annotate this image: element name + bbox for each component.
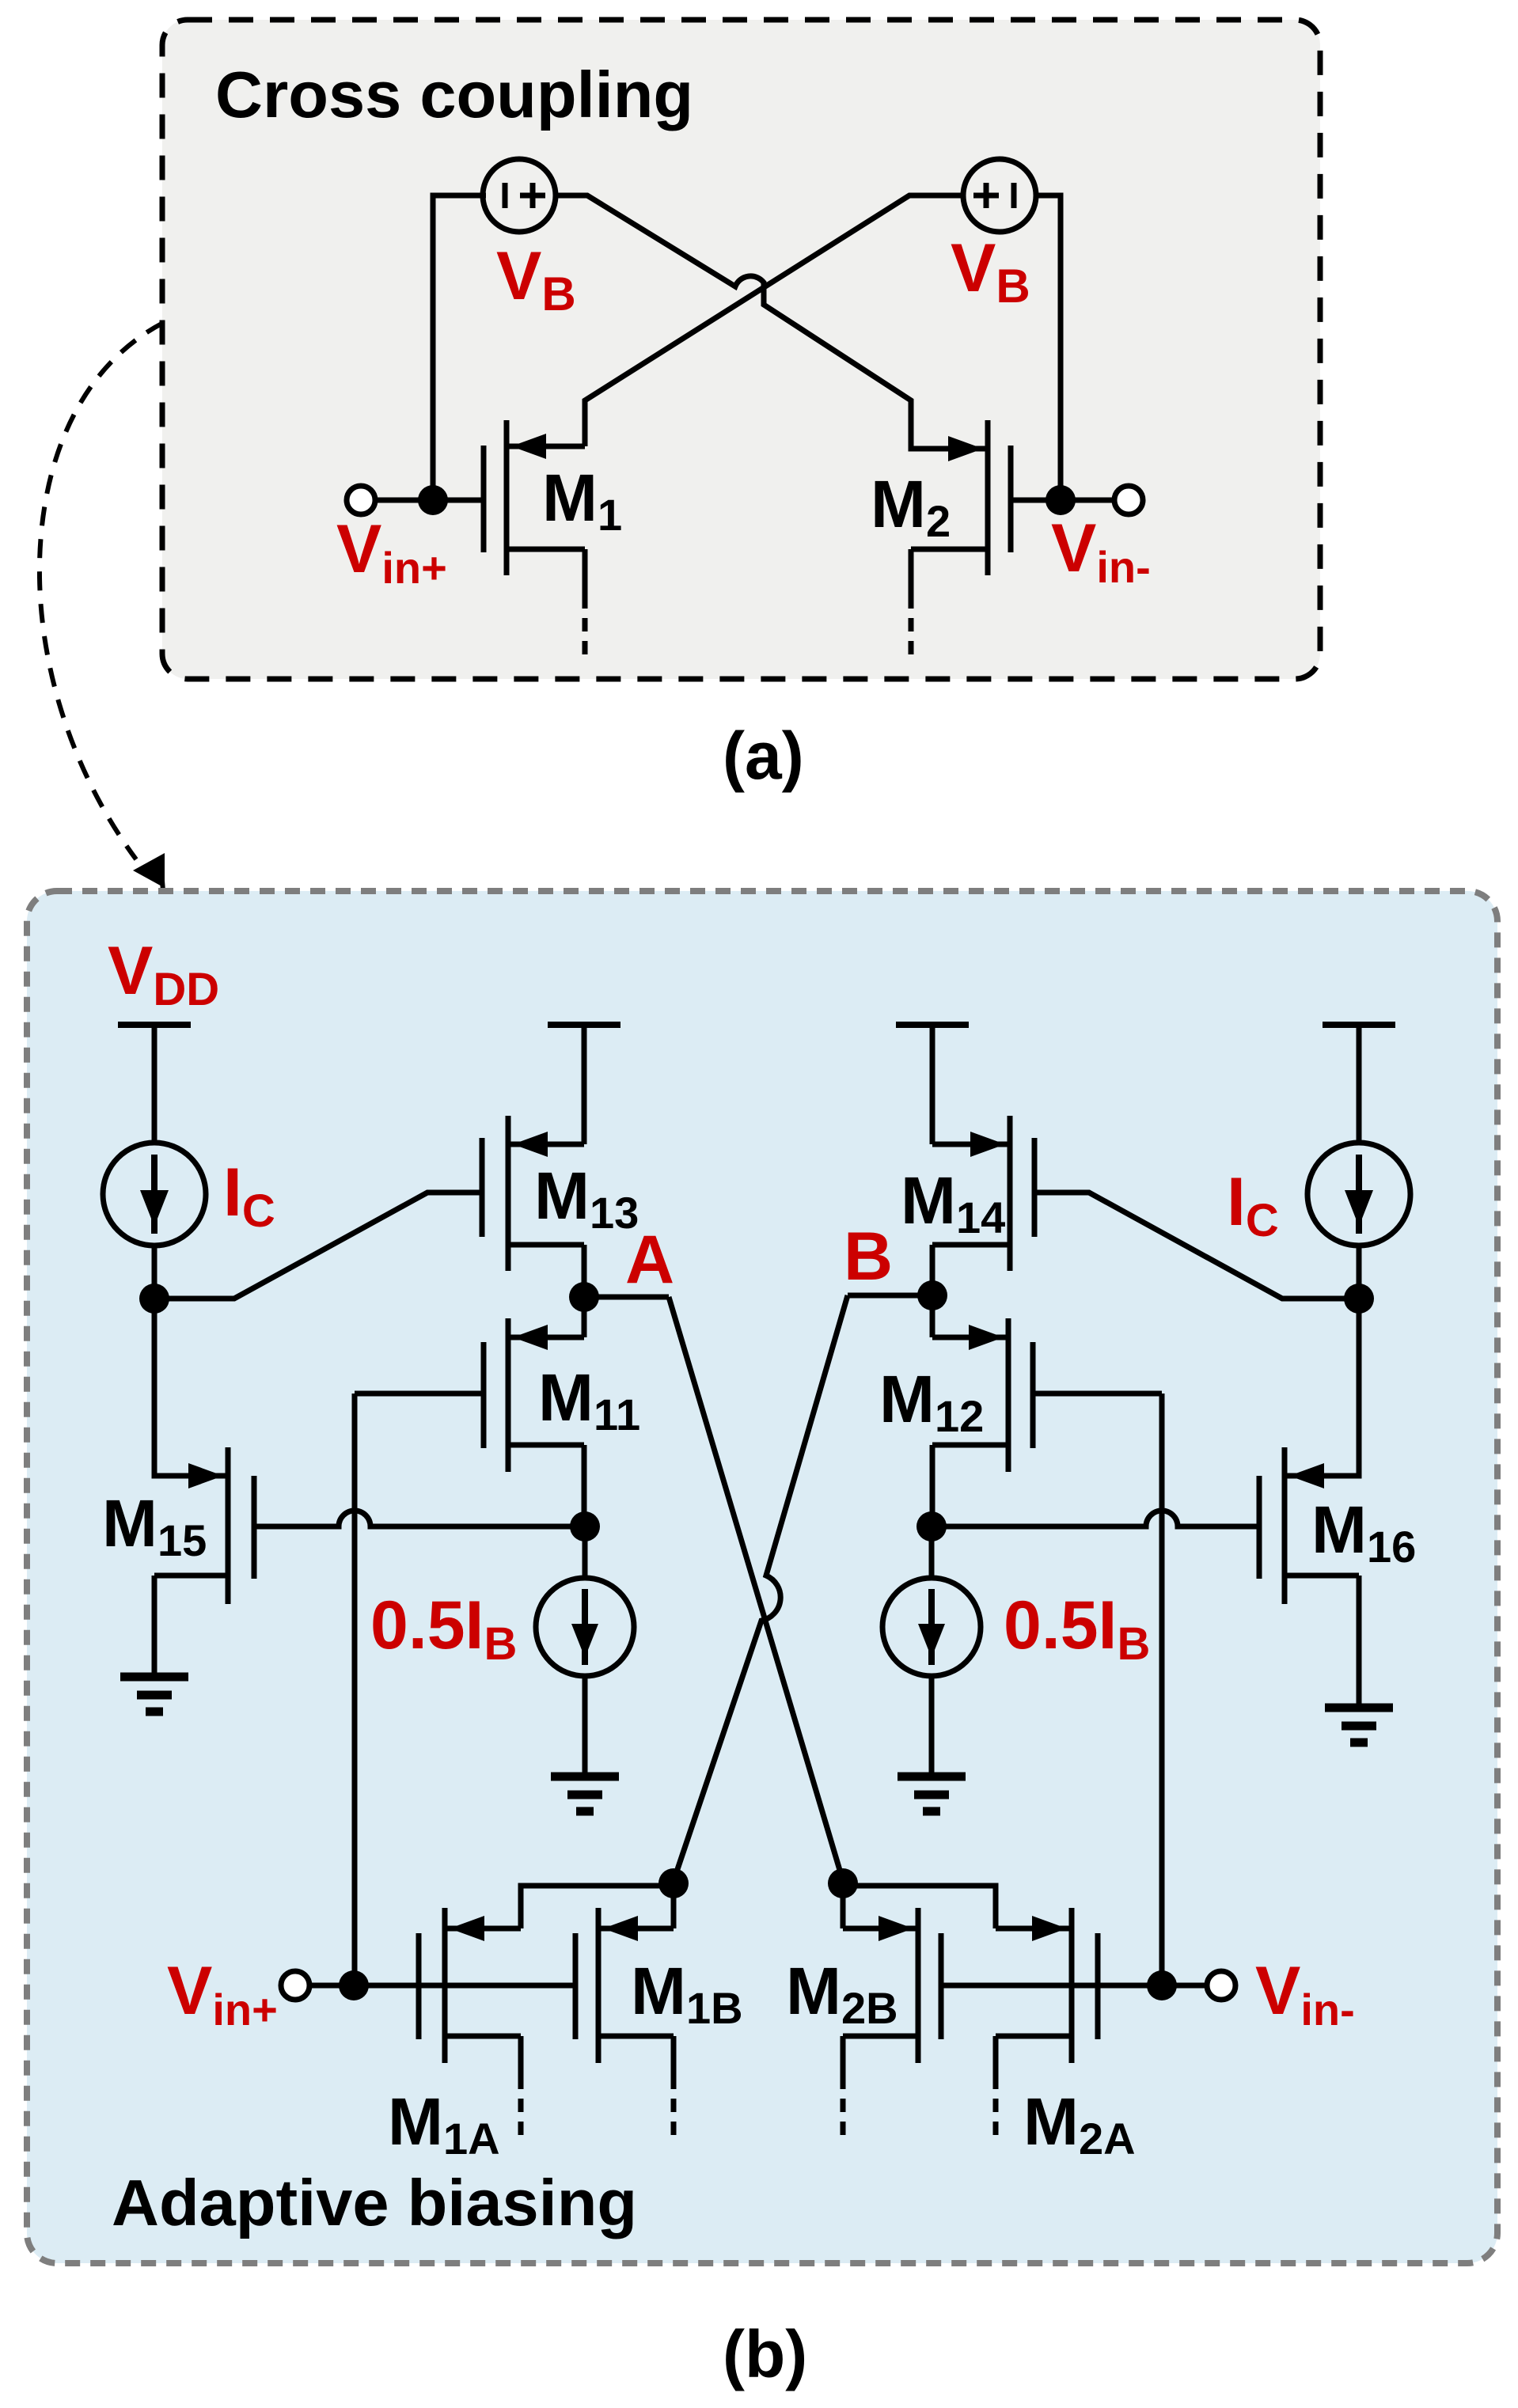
wire M2 gate to Vin-	[1011, 498, 1116, 503]
input terminal Vin- (b)	[1207, 1971, 1235, 2000]
svg-text:(a): (a)	[723, 719, 804, 793]
wire Vin- to M2A/M2B gates	[941, 1983, 1207, 1989]
node M1 pair common source	[658, 1868, 689, 1898]
node A	[569, 1282, 599, 1312]
label VB right	[951, 230, 1030, 313]
wire M1B drain tail	[671, 2036, 677, 2141]
label M14	[901, 1163, 1005, 1242]
title Cross coupling	[215, 58, 693, 131]
title Adaptive biasing	[112, 2166, 637, 2239]
wire Vin- riser to M12 gate	[1159, 1394, 1165, 1985]
label M2B	[786, 1954, 898, 2033]
node Vin+ junction (b)	[339, 1970, 369, 2000]
power VDD rail right	[1323, 1025, 1395, 1144]
label M1A	[388, 2084, 500, 2163]
wire M12 gate to Vin- riser	[1033, 1391, 1162, 1397]
label VDD	[108, 933, 219, 1015]
current source 0.5IB left	[536, 1526, 634, 1777]
wire M1A source up-over to common node	[521, 1886, 674, 1928]
transistor M15	[154, 1447, 254, 1677]
current source 0.5IB right	[882, 1526, 981, 1777]
wire M14 gate to IC node	[1034, 1193, 1359, 1299]
label Vin+ (a)	[336, 511, 447, 593]
label Vin- (a)	[1051, 510, 1151, 592]
label M1B	[631, 1954, 743, 2033]
label Vin- (b)	[1255, 1953, 1355, 2034]
transistor M14	[932, 1116, 1034, 1295]
ground 0.5IB left	[551, 1777, 619, 1811]
label M2A	[1023, 2084, 1136, 2163]
power VDD rail M14	[896, 1025, 969, 1144]
svg-text:Adaptive biasing: Adaptive biasing	[112, 2166, 637, 2239]
label 0.5IB left	[370, 1587, 517, 1670]
current source IC right	[1307, 1143, 1410, 1246]
ground M16	[1325, 1708, 1393, 1742]
wire cross B to M1 pair source (with hop)	[673, 1295, 848, 1883]
label M2	[871, 467, 951, 546]
wire M11 drain down	[582, 1445, 587, 1526]
wire M15 gate line (hop over riser)	[256, 1511, 585, 1526]
wire Vin+ to M1 gate	[375, 498, 484, 503]
wire M11 gate to Vin+ riser	[355, 1391, 484, 1397]
ground M15	[120, 1677, 188, 1712]
node M2 pair common source	[828, 1868, 858, 1898]
node Vin- junction (a)	[1046, 485, 1076, 515]
wire IC left to M15 drain	[154, 1244, 223, 1476]
label IC right	[1227, 1164, 1279, 1246]
wire Vin- riser to VB right	[1037, 195, 1061, 500]
label 0.5IB right	[1004, 1587, 1150, 1670]
label M15	[102, 1486, 207, 1565]
wire VB left to M2 source (cross-coupling)	[556, 195, 981, 449]
wire node B to cross corner	[848, 1293, 932, 1299]
panel (a) Cross coupling box	[162, 20, 1320, 679]
svg-text:B: B	[844, 1219, 893, 1295]
svg-text:Cross coupling: Cross coupling	[215, 58, 693, 131]
wire Vin+ to M1A/M1B gates	[309, 1983, 575, 1989]
node M12 drain junction	[916, 1511, 947, 1541]
transistor M2B	[843, 1908, 941, 2063]
transistor M12	[932, 1318, 1033, 1472]
transistor M16	[1259, 1447, 1359, 1708]
node B	[917, 1280, 947, 1310]
wire M13 gate to IC node	[154, 1193, 482, 1299]
wire M1B source to common node	[671, 1883, 677, 1928]
label VB left	[496, 238, 576, 320]
label M13	[534, 1158, 639, 1238]
input terminal Vin- (a)	[1114, 486, 1143, 514]
wire Vin+ riser to VB left	[433, 195, 486, 500]
input terminal Vin+ (b)	[281, 1971, 309, 2000]
wire M16 gate line (hop over riser)	[932, 1511, 1258, 1526]
current source IC left	[103, 1143, 206, 1246]
label M11	[538, 1360, 640, 1439]
wire node B to M12 source	[930, 1295, 935, 1337]
node M11 drain junction	[570, 1511, 600, 1541]
node Vin- junction (b)	[1147, 1970, 1177, 2000]
wire M1A drain tail	[518, 2036, 524, 2141]
label B	[844, 1219, 893, 1295]
transistor M1A	[419, 1908, 521, 2063]
wire M2A drain tail	[993, 2036, 999, 2141]
svg-text:(b): (b)	[723, 2317, 807, 2391]
label M16	[1311, 1492, 1416, 1572]
panel (b) Adaptive biasing box	[27, 891, 1497, 2263]
transistor M2A	[996, 1908, 1098, 2063]
wire node A to M11 source	[582, 1297, 587, 1337]
voltage source VB left	[483, 159, 556, 232]
wire cross A to M2 pair source	[669, 1297, 844, 1883]
label M1	[542, 461, 622, 540]
label M12	[879, 1362, 984, 1441]
transistor M11	[484, 1318, 584, 1472]
label (b)	[723, 2317, 807, 2391]
ground 0.5IB right	[898, 1777, 966, 1811]
wire M1 drain tail	[583, 549, 588, 663]
label IC left	[223, 1155, 275, 1237]
wire IC right to M16 drain	[1290, 1244, 1359, 1476]
wire M2B source to common node	[841, 1883, 846, 1928]
transistor M2	[911, 420, 1011, 575]
voltage source VB right	[963, 159, 1036, 232]
node Vin+ junction (a)	[418, 485, 448, 515]
label (a)	[723, 719, 804, 793]
node IC right junction	[1344, 1284, 1374, 1314]
wire node A to cross corner	[584, 1295, 669, 1300]
wire M2A source up-over to common node	[843, 1886, 996, 1928]
node IC left junction	[139, 1284, 169, 1314]
label A	[625, 1222, 674, 1298]
wire Vin+ riser to M11 gate	[352, 1394, 358, 1985]
label Vin+ (b)	[167, 1953, 278, 2034]
wire M2B drain tail	[841, 2036, 846, 2141]
transistor M1B	[575, 1908, 674, 2063]
wire M12 drain down	[930, 1445, 935, 1526]
svg-text:A: A	[625, 1222, 674, 1298]
dashed arrow from panel (a) to panel (b)	[40, 323, 165, 891]
wire M2 drain tail	[909, 549, 914, 663]
transistor M1	[484, 420, 585, 575]
wire M1 source to VB right (cross-coupling, with hop)	[585, 195, 964, 446]
transistor M13	[482, 1116, 584, 1297]
input terminal Vin+ (a)	[347, 486, 375, 514]
power VDD rail M13	[548, 1025, 620, 1144]
power VDD rail left	[118, 1025, 191, 1144]
